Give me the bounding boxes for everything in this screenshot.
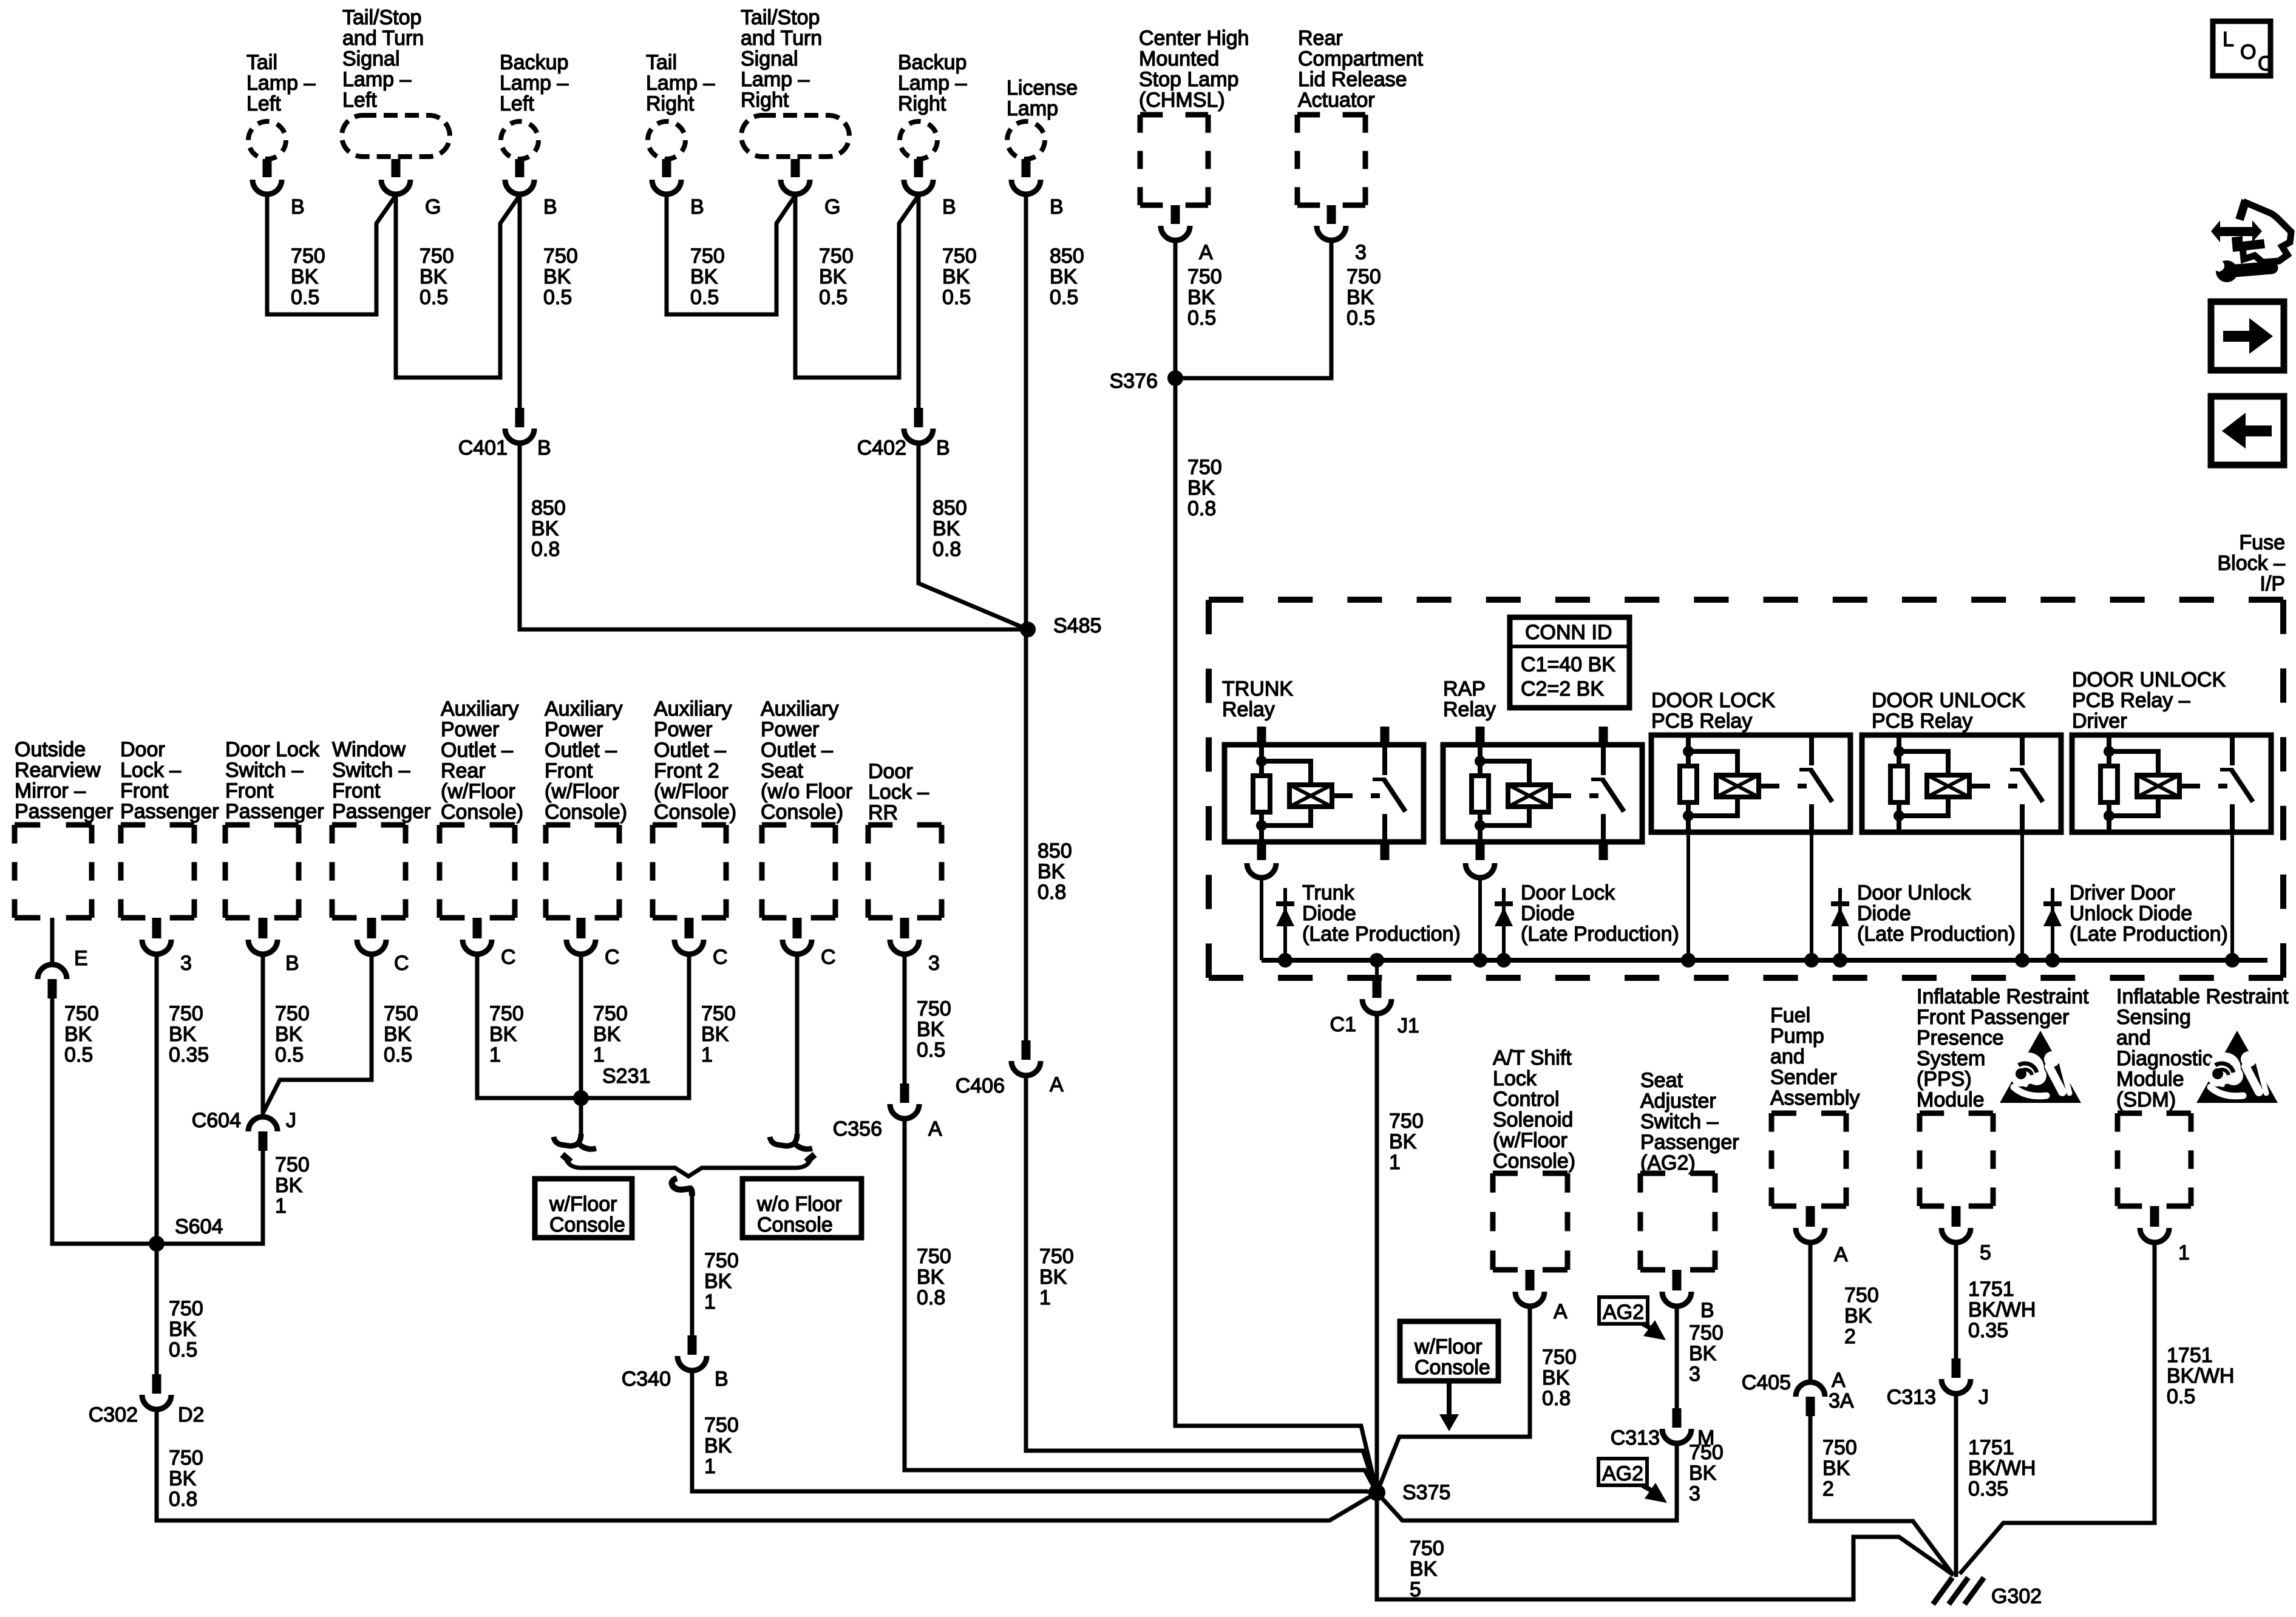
component Auxiliary Power Outlet - Seat (w/o Floor Console) bbox=[761, 697, 852, 918]
svg-text:Stop Lamp: Stop Lamp bbox=[1139, 68, 1238, 91]
connector pin G of Tail/Stop Lamp - Left bbox=[381, 159, 441, 219]
svg-text:750: 750 bbox=[275, 1002, 310, 1025]
svg-text:(Late Production): (Late Production) bbox=[1521, 923, 1679, 946]
svg-text:Door Lock: Door Lock bbox=[225, 738, 320, 761]
svg-text:BK: BK bbox=[1187, 476, 1215, 500]
module Inflatable Restraint Front Passenger Presence System (PPS) bbox=[1917, 985, 2089, 1206]
svg-text:Lamp –: Lamp – bbox=[646, 72, 715, 95]
svg-text:O: O bbox=[2240, 41, 2256, 64]
svg-text:C1=40 BK: C1=40 BK bbox=[1521, 653, 1615, 676]
connector C340 pin B bbox=[622, 1335, 729, 1391]
svg-text:B: B bbox=[1700, 1299, 1714, 1322]
svg-text:BK: BK bbox=[169, 1467, 197, 1490]
component Door Lock - Front Passenger bbox=[120, 738, 219, 918]
splice S375 bbox=[1368, 1481, 1450, 1504]
svg-text:0.35: 0.35 bbox=[1968, 1319, 2008, 1342]
svg-text:BK: BK bbox=[543, 265, 571, 288]
connector pin C of Aux Outlet Rear bbox=[463, 918, 516, 969]
svg-text:BK: BK bbox=[64, 1023, 92, 1046]
svg-text:Passenger: Passenger bbox=[1640, 1131, 1739, 1154]
svg-text:C: C bbox=[2258, 52, 2273, 75]
svg-text:B: B bbox=[543, 195, 557, 219]
svg-text:BK: BK bbox=[291, 265, 319, 288]
connector pin B of Backup Lamp - Left bbox=[505, 159, 557, 219]
svg-text:(SDM): (SDM) bbox=[2116, 1088, 2176, 1111]
svg-text:C2=2 BK: C2=2 BK bbox=[1521, 677, 1604, 700]
svg-text:Presence: Presence bbox=[1917, 1026, 2004, 1049]
svg-text:BK: BK bbox=[704, 1434, 732, 1457]
svg-text:(w/Floor: (w/Floor bbox=[1493, 1129, 1567, 1152]
svg-text:Center High: Center High bbox=[1139, 27, 1249, 50]
svg-text:Inflatable Restraint: Inflatable Restraint bbox=[1917, 985, 2089, 1008]
connector pin B of Backup Lamp - Right bbox=[904, 159, 956, 219]
svg-text:BK: BK bbox=[1038, 860, 1065, 883]
svg-text:RR: RR bbox=[868, 801, 898, 824]
svg-text:B: B bbox=[690, 195, 704, 219]
svg-text:(w/Floor: (w/Floor bbox=[441, 780, 515, 803]
svg-text:(CHMSL): (CHMSL) bbox=[1139, 89, 1225, 112]
svg-text:Front 2: Front 2 bbox=[654, 759, 719, 782]
svg-text:BK: BK bbox=[593, 1023, 621, 1046]
svg-text:J: J bbox=[286, 1109, 296, 1132]
svg-text:BK: BK bbox=[275, 1174, 303, 1197]
svg-text:Lock –: Lock – bbox=[120, 759, 181, 782]
svg-text:750: 750 bbox=[169, 1002, 203, 1025]
component Auxiliary Power Outlet - Front (w/Floor Console) bbox=[545, 697, 627, 918]
svg-text:750: 750 bbox=[593, 1002, 628, 1025]
wire 750 BK 0.5 from mirror to S604 bbox=[52, 998, 157, 1244]
svg-text:Trunk: Trunk bbox=[1302, 881, 1355, 904]
svg-text:Lamp –: Lamp – bbox=[500, 72, 568, 95]
wire DOOR LOCK relay coil to ground bus bbox=[1686, 832, 1690, 960]
svg-text:Auxiliary: Auxiliary bbox=[654, 697, 732, 720]
svg-text:Power: Power bbox=[761, 718, 819, 741]
component Fuel Pump and Sender Assembly bbox=[1770, 1004, 1860, 1206]
connector pin A of CHMSL bbox=[1161, 205, 1213, 264]
svg-text:and: and bbox=[1770, 1045, 1805, 1068]
label DOOR UNLOCK PCB Relay - Driver bbox=[2072, 668, 2226, 733]
svg-text:(PPS): (PPS) bbox=[1917, 1068, 1972, 1091]
svg-text:750: 750 bbox=[942, 245, 977, 268]
svg-text:750: 750 bbox=[917, 1245, 951, 1268]
svg-text:BK: BK bbox=[704, 1270, 732, 1293]
svg-text:G: G bbox=[824, 195, 840, 219]
svg-text:0.5: 0.5 bbox=[384, 1043, 412, 1066]
table CONN ID (C1=40 BK / C2=2 BK) bbox=[1510, 617, 1629, 708]
svg-text:PCB Relay: PCB Relay bbox=[1651, 710, 1752, 733]
svg-text:BK: BK bbox=[1410, 1558, 1438, 1581]
svg-text:Passenger: Passenger bbox=[225, 800, 324, 823]
svg-text:0.5: 0.5 bbox=[419, 286, 448, 309]
svg-text:Lock: Lock bbox=[1493, 1067, 1537, 1090]
svg-text:Solenoid: Solenoid bbox=[1493, 1108, 1573, 1131]
svg-text:BK: BK bbox=[1039, 1266, 1067, 1289]
svg-text:750: 750 bbox=[917, 997, 951, 1020]
component Auxiliary Power Outlet - Front 2 (w/Floor Console) bbox=[653, 697, 736, 918]
svg-text:2: 2 bbox=[1822, 1477, 1834, 1500]
svg-text:Mounted: Mounted bbox=[1139, 47, 1219, 70]
svg-text:A: A bbox=[928, 1117, 942, 1141]
svg-text:1: 1 bbox=[1389, 1151, 1401, 1174]
svg-text:0.5: 0.5 bbox=[275, 1043, 304, 1066]
svg-text:750: 750 bbox=[1410, 1537, 1444, 1560]
svg-text:750: 750 bbox=[1689, 1321, 1724, 1344]
component Outside Rearview Mirror - Passenger bbox=[15, 738, 114, 918]
svg-text:Adjuster: Adjuster bbox=[1640, 1090, 1716, 1113]
wire 750 BK 0.8 from A/T Shift Lock Solenoid to S375 bbox=[1377, 1306, 1577, 1493]
svg-text:(Late Production): (Late Production) bbox=[1302, 923, 1461, 946]
svg-text:C1: C1 bbox=[1330, 1013, 1356, 1036]
svg-text:PCB Relay –: PCB Relay – bbox=[2072, 689, 2190, 712]
svg-text:Lamp –: Lamp – bbox=[741, 68, 809, 91]
svg-text:C402: C402 bbox=[857, 436, 906, 459]
svg-text:1: 1 bbox=[593, 1043, 605, 1066]
svg-text:0.5: 0.5 bbox=[690, 286, 719, 309]
svg-text:0.5: 0.5 bbox=[917, 1039, 945, 1062]
relay RAP bbox=[1443, 727, 1642, 860]
svg-text:Mirror –: Mirror – bbox=[15, 779, 86, 802]
wire DOOR LOCK relay switch to ground bus bbox=[1810, 832, 1813, 960]
wire DOOR UNLOCK relay switch to ground bus bbox=[2020, 832, 2024, 960]
connector pin A of A/T Shift Lock Solenoid bbox=[1515, 1270, 1567, 1323]
module Inflatable Restraint Sensing and Diagnostic Module (SDM) bbox=[2116, 985, 2289, 1206]
svg-text:(w/Floor: (w/Floor bbox=[654, 780, 729, 803]
connector pin B of Tail Lamp - Right bbox=[652, 159, 704, 219]
svg-text:Right: Right bbox=[898, 92, 946, 115]
svg-text:RAP: RAP bbox=[1443, 677, 1486, 700]
lamp License Lamp bbox=[1007, 76, 1078, 159]
relay DOOR UNLOCK PCB - Driver bbox=[2072, 735, 2271, 832]
svg-text:BK: BK bbox=[932, 517, 960, 540]
svg-text:Door: Door bbox=[868, 760, 913, 783]
svg-text:E: E bbox=[74, 947, 88, 970]
svg-text:3: 3 bbox=[180, 952, 192, 975]
connector pin B of License Lamp bbox=[1011, 159, 1064, 219]
svg-text:Tail/Stop: Tail/Stop bbox=[741, 6, 820, 29]
svg-text:L: L bbox=[2223, 28, 2234, 51]
svg-text:Diagnostic: Diagnostic bbox=[2116, 1047, 2213, 1070]
svg-text:Unlock Diode: Unlock Diode bbox=[2070, 902, 2192, 925]
svg-text:AG2: AG2 bbox=[1602, 1462, 1643, 1485]
svg-text:750: 750 bbox=[701, 1002, 736, 1025]
svg-text:C401: C401 bbox=[458, 436, 508, 459]
svg-text:BK: BK bbox=[1542, 1366, 1570, 1389]
svg-text:BK: BK bbox=[1050, 265, 1078, 288]
svg-text:750: 750 bbox=[1542, 1346, 1577, 1369]
svg-text:BK: BK bbox=[384, 1023, 412, 1046]
svg-text:Relay: Relay bbox=[1443, 698, 1496, 721]
wire 750 BK 3 from Seat Adjuster Switch to C313 bbox=[1677, 1306, 1724, 1408]
svg-text:Signal: Signal bbox=[342, 47, 400, 70]
svg-text:Console): Console) bbox=[761, 801, 843, 824]
warning triangle PPS bbox=[2000, 1031, 2081, 1103]
diode Trunk Diode (Late Production) bbox=[1276, 881, 1461, 960]
svg-text:Front: Front bbox=[120, 779, 169, 802]
lamp Tail/Stop and Turn Signal Lamp - Right bbox=[741, 6, 849, 157]
svg-text:0.8: 0.8 bbox=[169, 1488, 197, 1511]
wire 750 BK 0.5 from Tail Lamp - Right bbox=[667, 194, 795, 314]
svg-text:(Late Production): (Late Production) bbox=[1857, 923, 2016, 946]
svg-text:C: C bbox=[605, 946, 620, 969]
svg-text:750: 750 bbox=[690, 245, 725, 268]
svg-text:BK/WH: BK/WH bbox=[1968, 1298, 2036, 1321]
svg-text:License: License bbox=[1007, 76, 1078, 100]
svg-text:850: 850 bbox=[1050, 245, 1084, 268]
wire 750 BK 1 from Aux Outlet Rear to S231 bbox=[477, 954, 581, 1098]
svg-text:(Late Production): (Late Production) bbox=[2070, 923, 2228, 946]
svg-text:0.5: 0.5 bbox=[291, 286, 319, 309]
wire 850 BK 0.8 from S485 to C406 bbox=[1026, 629, 1072, 1040]
svg-text:3: 3 bbox=[1355, 241, 1367, 264]
svg-text:0.5: 0.5 bbox=[942, 286, 971, 309]
wire 750 BK 0.5 from Lid Release Actuator to S376 bbox=[1175, 240, 1381, 378]
svg-text:Passenger: Passenger bbox=[15, 800, 114, 823]
svg-text:B: B bbox=[942, 195, 956, 219]
label TRUNK Relay bbox=[1222, 677, 1293, 721]
connector pin B of Door Lock Switch bbox=[248, 918, 299, 975]
svg-text:0.8: 0.8 bbox=[917, 1286, 945, 1309]
svg-text:Door Lock: Door Lock bbox=[1521, 881, 1615, 904]
relay DOOR UNLOCK PCB bbox=[1862, 735, 2061, 832]
fuse block I/P dashed border bbox=[1209, 600, 2283, 978]
wire 750 BK 0.35 from Door Lock - Front Passenger to S604 bbox=[157, 954, 209, 1244]
component Auxiliary Power Outlet - Rear (w/Floor Console) bbox=[440, 697, 523, 918]
warning triangle SDM bbox=[2196, 1031, 2278, 1103]
wire 750 BK 3 from C313 M to S375 bbox=[1377, 1441, 1724, 1520]
svg-text:BK: BK bbox=[531, 517, 559, 540]
svg-text:Lamp –: Lamp – bbox=[898, 72, 966, 95]
svg-text:Fuel: Fuel bbox=[1770, 1004, 1810, 1027]
wire from Aux Outlet Seat to option hook bbox=[770, 954, 812, 1149]
svg-text:0.8: 0.8 bbox=[1038, 881, 1066, 904]
svg-text:750: 750 bbox=[1187, 265, 1222, 288]
svg-text:A: A bbox=[1832, 1369, 1846, 1392]
svg-text:S231: S231 bbox=[602, 1065, 650, 1088]
svg-text:D2: D2 bbox=[178, 1403, 204, 1426]
svg-text:Assembly: Assembly bbox=[1770, 1086, 1860, 1110]
svg-text:CONN ID: CONN ID bbox=[1525, 621, 1612, 644]
svg-text:w/Floor: w/Floor bbox=[1414, 1335, 1482, 1358]
svg-text:Control: Control bbox=[1493, 1088, 1560, 1111]
connector C356 pin A bbox=[833, 1083, 942, 1141]
relay DOOR LOCK PCB bbox=[1651, 735, 1850, 832]
lamp Center High Mounted Stop Lamp (CHMSL) bbox=[1139, 27, 1249, 205]
wire 750 BK 1 from C406 to S375 bbox=[1026, 1076, 1377, 1493]
connector pin C of Aux Outlet Front 2 bbox=[674, 918, 728, 969]
option label box w/Floor Console bbox=[535, 1179, 632, 1238]
svg-text:Driver Door: Driver Door bbox=[2070, 881, 2175, 904]
connector below RAP relay bbox=[1466, 863, 1495, 878]
svg-text:BK: BK bbox=[1347, 286, 1374, 309]
component Door Lock Switch - Front Passenger bbox=[225, 738, 324, 918]
svg-text:C340: C340 bbox=[622, 1368, 671, 1391]
svg-text:Driver: Driver bbox=[2072, 710, 2127, 733]
svg-text:BK: BK bbox=[1689, 1462, 1717, 1485]
svg-text:0.5: 0.5 bbox=[1187, 307, 1216, 330]
svg-text:Front: Front bbox=[225, 779, 274, 802]
svg-text:Power: Power bbox=[654, 718, 712, 741]
svg-text:Outside: Outside bbox=[15, 738, 86, 761]
net reference AG2 with arrow (below C313 M) bbox=[1598, 1459, 1647, 1485]
connector C604 pin J bbox=[192, 1109, 296, 1132]
wire 750 BK 0.5 from Backup Lamp - Right to C402 bbox=[919, 194, 977, 408]
connector pin A of Fuel Pump bbox=[1796, 1206, 1848, 1266]
svg-text:Relay: Relay bbox=[1222, 698, 1275, 721]
option label box w/Floor Console with arrow bbox=[1400, 1321, 1498, 1431]
svg-text:0.5: 0.5 bbox=[1347, 307, 1375, 330]
svg-text:w/Floor: w/Floor bbox=[549, 1193, 617, 1216]
svg-text:and Turn: and Turn bbox=[342, 27, 424, 50]
svg-text:Console: Console bbox=[757, 1213, 833, 1236]
connector pin G of Tail/Stop Lamp - Right bbox=[781, 159, 840, 219]
wire 1751 BK/WH 0.35 from C313 J to G302 bbox=[1956, 1394, 2036, 1577]
svg-text:BK: BK bbox=[942, 265, 970, 288]
component A/T Shift Lock Control Solenoid (w/Floor Console) bbox=[1493, 1046, 1575, 1270]
connector pin C of Window Switch bbox=[357, 918, 409, 975]
svg-text:Actuator: Actuator bbox=[1298, 89, 1375, 112]
svg-text:Passenger: Passenger bbox=[120, 800, 219, 823]
diode Door Unlock Diode (Late Production) bbox=[1831, 881, 2016, 960]
svg-text:Power: Power bbox=[545, 718, 603, 741]
svg-text:2: 2 bbox=[1844, 1325, 1856, 1348]
svg-text:Module: Module bbox=[2116, 1068, 2184, 1091]
svg-text:Passenger: Passenger bbox=[332, 800, 431, 823]
svg-text:1: 1 bbox=[489, 1043, 501, 1066]
wire 1751 BK/WH 0.35 from PPS Module to C313 bbox=[1956, 1242, 2036, 1358]
svg-text:0.8: 0.8 bbox=[1542, 1387, 1571, 1410]
svg-text:750: 750 bbox=[1844, 1284, 1879, 1307]
svg-text:Door: Door bbox=[120, 738, 165, 761]
svg-text:0.5: 0.5 bbox=[543, 286, 572, 309]
wire 850 BK 0.8 from C402 to S485 bbox=[919, 443, 1028, 629]
connector pin 3 of Door Lock - Front Passenger bbox=[142, 918, 192, 975]
label DOOR LOCK PCB Relay bbox=[1651, 689, 1775, 733]
wire 850 BK 0.8 from C401 to S485 bbox=[520, 443, 1028, 629]
svg-text:DOOR LOCK: DOOR LOCK bbox=[1651, 689, 1775, 712]
svg-text:A/T Shift: A/T Shift bbox=[1493, 1046, 1572, 1070]
svg-text:BK: BK bbox=[1389, 1130, 1417, 1153]
connector C1 pin J1 below fuse block bbox=[1330, 960, 1419, 1037]
wire 750 BK 1 from C1 J1 to S375 bbox=[1377, 1014, 1424, 1493]
svg-text:Pump: Pump bbox=[1770, 1025, 1824, 1048]
svg-text:BK: BK bbox=[819, 265, 847, 288]
svg-text:3: 3 bbox=[1689, 1363, 1700, 1386]
svg-text:Console: Console bbox=[549, 1213, 625, 1236]
svg-text:DOOR UNLOCK: DOOR UNLOCK bbox=[1872, 689, 2025, 712]
svg-text:BK: BK bbox=[419, 265, 447, 288]
lamp Tail/Stop and Turn Signal Lamp - Left bbox=[342, 6, 450, 157]
wire TRUNK relay to ground bus bbox=[1260, 878, 1263, 960]
svg-text:BK: BK bbox=[169, 1023, 197, 1046]
svg-text:BK: BK bbox=[690, 265, 718, 288]
svg-text:B: B bbox=[291, 195, 305, 219]
wire 750 BK 1 from Aux Outlet Front 2 to S231 bbox=[581, 954, 736, 1098]
svg-text:(w/o Floor: (w/o Floor bbox=[761, 780, 852, 803]
component Seat Adjuster Switch - Passenger (AG2) bbox=[1640, 1069, 1739, 1270]
svg-text:Front Passenger: Front Passenger bbox=[1917, 1006, 2069, 1029]
svg-text:C604: C604 bbox=[192, 1109, 241, 1132]
svg-text:850: 850 bbox=[531, 497, 566, 520]
svg-text:Signal: Signal bbox=[741, 47, 798, 70]
svg-text:750: 750 bbox=[543, 245, 578, 268]
svg-text:Backup: Backup bbox=[500, 51, 568, 74]
svg-text:Left: Left bbox=[500, 92, 534, 115]
svg-text:C: C bbox=[501, 946, 516, 969]
lamp Backup Lamp - Left bbox=[500, 51, 568, 159]
svg-text:A: A bbox=[1834, 1243, 1848, 1266]
junction dots on ground bus bbox=[1278, 953, 2240, 968]
svg-text:0.5: 0.5 bbox=[169, 1338, 197, 1361]
svg-text:750: 750 bbox=[1689, 1441, 1724, 1464]
wire 750 BK 0.5 from Door Lock - RR to C356 bbox=[905, 954, 951, 1083]
svg-text:0.8: 0.8 bbox=[932, 538, 961, 561]
label RAP Relay bbox=[1443, 677, 1496, 721]
svg-text:Module: Module bbox=[1917, 1088, 1985, 1111]
svg-text:1: 1 bbox=[1039, 1286, 1051, 1309]
svg-text:1751: 1751 bbox=[2167, 1344, 2213, 1367]
connector pin 1 of SDM bbox=[2140, 1206, 2190, 1264]
svg-text:Auxiliary: Auxiliary bbox=[441, 697, 518, 720]
svg-text:C302: C302 bbox=[89, 1403, 138, 1426]
svg-text:Console): Console) bbox=[654, 801, 736, 824]
svg-text:1751: 1751 bbox=[1968, 1436, 2014, 1459]
splice S376 bbox=[1110, 370, 1183, 393]
option label box w/o Floor Console bbox=[742, 1179, 861, 1238]
svg-text:5: 5 bbox=[1410, 1578, 1421, 1601]
svg-text:BK: BK bbox=[489, 1023, 517, 1046]
svg-text:BK: BK bbox=[275, 1023, 303, 1046]
svg-text:Tail: Tail bbox=[246, 51, 277, 74]
connector C401 pin B bbox=[458, 408, 551, 459]
svg-text:Console): Console) bbox=[545, 801, 627, 824]
component Door Lock - RR bbox=[868, 760, 942, 918]
svg-text:Left: Left bbox=[342, 89, 377, 112]
svg-text:Tail: Tail bbox=[646, 51, 677, 74]
svg-text:C313: C313 bbox=[1611, 1426, 1660, 1449]
fuse block label Fuse Block - I/P bbox=[2218, 531, 2286, 595]
svg-text:Right: Right bbox=[741, 89, 789, 112]
svg-text:PCB Relay: PCB Relay bbox=[1872, 710, 1972, 733]
svg-text:BK: BK bbox=[169, 1318, 197, 1341]
svg-text:C: C bbox=[821, 946, 836, 969]
svg-text:S376: S376 bbox=[1110, 370, 1158, 393]
svg-text:J: J bbox=[1978, 1386, 1989, 1409]
svg-text:0.5: 0.5 bbox=[819, 286, 847, 309]
svg-text:Outlet –: Outlet – bbox=[545, 739, 617, 762]
svg-text:Backup: Backup bbox=[898, 51, 966, 74]
wire 750 BK 1 from option brace to C340 bbox=[672, 1178, 739, 1335]
svg-text:750: 750 bbox=[1187, 456, 1222, 479]
svg-text:1751: 1751 bbox=[1968, 1278, 2014, 1301]
svg-text:Auxiliary: Auxiliary bbox=[545, 697, 622, 720]
svg-text:750: 750 bbox=[819, 245, 854, 268]
connector pin C of Aux Outlet Front bbox=[566, 918, 620, 969]
svg-text:Front: Front bbox=[545, 759, 593, 782]
svg-text:C: C bbox=[394, 952, 409, 975]
svg-text:Fuse: Fuse bbox=[2239, 531, 2285, 554]
svg-text:3: 3 bbox=[928, 952, 940, 975]
wire 750 BK 0.8 from S376 down to S375 bbox=[1175, 378, 1377, 1493]
svg-text:Switch –: Switch – bbox=[1640, 1110, 1719, 1133]
connector C313 pin J bbox=[1887, 1358, 1989, 1409]
svg-text:Inflatable Restraint: Inflatable Restraint bbox=[2116, 985, 2289, 1008]
svg-text:Compartment: Compartment bbox=[1298, 47, 1424, 70]
svg-text:B: B bbox=[285, 952, 299, 975]
svg-text:Auxiliary: Auxiliary bbox=[761, 697, 838, 720]
svg-text:750: 750 bbox=[64, 1002, 99, 1025]
connector pin B of Tail Lamp - Left bbox=[253, 159, 305, 219]
svg-text:BK: BK bbox=[1689, 1342, 1717, 1365]
